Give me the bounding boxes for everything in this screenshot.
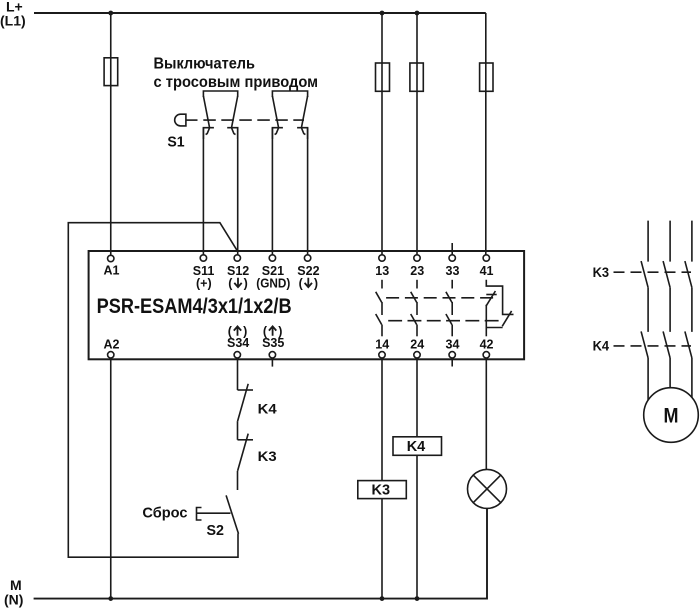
svg-text:33: 33 <box>446 264 460 278</box>
svg-text:(: ( <box>299 276 304 290</box>
fuse F3 <box>410 63 423 91</box>
K4 mech dashed link <box>614 345 692 347</box>
svg-text:S34: S34 <box>227 336 249 350</box>
node junction L+/A1 <box>108 11 113 16</box>
terminal S11 <box>200 255 206 261</box>
terminal S21 <box>269 255 275 261</box>
node junction L+/23 <box>415 11 420 16</box>
pushbutton S2 actuator <box>197 508 202 521</box>
svg-text:S35: S35 <box>262 336 284 350</box>
wire 41 drop <box>485 13 487 255</box>
wire A1 drop <box>110 13 112 255</box>
svg-text:23: 23 <box>410 264 424 278</box>
svg-text:K4: K4 <box>407 439 426 455</box>
svg-text:(N): (N) <box>4 592 23 608</box>
fuse F4 <box>480 63 493 91</box>
wire S22 <box>307 128 309 255</box>
relay contact 33-34 <box>446 280 452 337</box>
svg-text:14: 14 <box>375 338 389 352</box>
mech link dashed row 1 <box>386 297 493 299</box>
wire 24 to K4 coil <box>416 358 418 437</box>
svg-text:41: 41 <box>480 264 494 278</box>
terminal 41 <box>483 255 489 261</box>
terminal S12 <box>234 255 240 261</box>
svg-text:K3: K3 <box>258 448 277 464</box>
S1 actuator head <box>175 114 186 126</box>
wire L+ top rail <box>34 12 486 14</box>
wire S35 stub below box <box>271 358 273 367</box>
contact K4 NC (feedback) <box>238 384 254 440</box>
svg-text:K4: K4 <box>258 401 277 417</box>
wire K4 to rail <box>416 455 418 598</box>
svg-text:(L1): (L1) <box>0 13 26 29</box>
terminal 24 <box>414 352 420 358</box>
wire 23 drop <box>416 13 418 255</box>
terminal S22 <box>304 255 310 261</box>
wire 13 drop <box>381 13 383 255</box>
wire 34 stub below box <box>451 358 453 367</box>
K3 mech dashed link <box>614 271 692 273</box>
wire lamp to rail corner <box>34 508 487 598</box>
wire S11 <box>202 128 204 255</box>
terminal 34 <box>449 352 455 358</box>
S1 actuator link solid <box>186 119 198 121</box>
pushbutton S2 blade <box>226 495 238 533</box>
coil K3 <box>358 481 407 499</box>
svg-text:13: 13 <box>375 264 389 278</box>
svg-text:M: M <box>664 405 679 428</box>
svg-text:S1: S1 <box>167 134 184 151</box>
terminal 42 <box>483 352 489 358</box>
node junction M/K4 <box>415 596 420 601</box>
wire A2 to M rail <box>110 358 112 599</box>
wire S34 down <box>237 358 239 390</box>
terminal 13 <box>379 255 385 261</box>
svg-text:с тросовым приводом: с тросовым приводом <box>154 74 319 91</box>
switch S1 contact 1 (S11-S12) <box>203 91 237 139</box>
svg-text:): ) <box>244 276 248 290</box>
terminal 33 <box>449 255 455 261</box>
svg-text:42: 42 <box>480 338 494 352</box>
relay contact 13-14 <box>376 280 382 337</box>
terminal 14 <box>379 352 385 358</box>
lamp H1 <box>468 469 507 508</box>
svg-text:K3: K3 <box>372 483 391 499</box>
wire 42 to lamp <box>485 358 487 470</box>
relay contact 23-24 <box>411 280 417 337</box>
coil K4 <box>393 437 442 456</box>
mech link dashed row 2 <box>388 320 503 322</box>
terminal 23 <box>414 255 420 261</box>
svg-text:PSR-ESAM4/3x1/1x2/B: PSR-ESAM4/3x1/1x2/B <box>97 295 292 318</box>
svg-text:Выключатель: Выключатель <box>154 56 256 73</box>
wire reset feedback loop left <box>68 223 238 558</box>
svg-text:(GND): (GND) <box>256 276 290 290</box>
terminal A2 <box>108 352 114 358</box>
terminal S35 <box>269 352 275 358</box>
wire S21 <box>271 128 273 255</box>
pushbutton S2 rod <box>197 512 231 514</box>
svg-text:K4: K4 <box>593 338 610 354</box>
relay box PSR-ESAM4 <box>89 251 524 359</box>
svg-text:(: ( <box>228 276 233 290</box>
motor M1 <box>644 388 699 443</box>
fuse F2 <box>376 63 390 91</box>
wire three-phase supply feeders <box>648 221 692 262</box>
svg-text:K3: K3 <box>593 264 610 280</box>
svg-text:): ) <box>314 276 318 290</box>
svg-text:24: 24 <box>410 338 424 352</box>
wire 14 to K3 coil <box>381 358 383 481</box>
svg-text:S2: S2 <box>207 523 225 539</box>
S1 mechanical link dashed <box>203 119 304 121</box>
contactor K3 main contacts <box>641 261 692 332</box>
svg-text:A1: A1 <box>104 264 120 278</box>
svg-text:(+): (+) <box>196 276 212 290</box>
wire S12 <box>237 128 239 255</box>
node junction M/K3 <box>380 596 385 601</box>
contact K3 NC (feedback) <box>238 434 254 490</box>
wire K3 to rail <box>381 499 383 599</box>
node junction M/A2 <box>108 596 113 601</box>
wire 33 stub above box <box>451 243 453 255</box>
svg-text:A2: A2 <box>104 337 120 351</box>
terminal S34 <box>234 352 240 358</box>
svg-text:34: 34 <box>446 338 460 352</box>
svg-text:Сброс: Сброс <box>142 504 187 521</box>
switch S1 contact 2 (S21-S22) <box>272 91 307 139</box>
relay NC contact 41-42 <box>486 280 514 337</box>
node junction L+/13 <box>380 11 385 16</box>
fuse F1 <box>104 58 118 86</box>
contactor K4 main contacts <box>641 331 692 400</box>
terminal A1 <box>108 255 114 261</box>
